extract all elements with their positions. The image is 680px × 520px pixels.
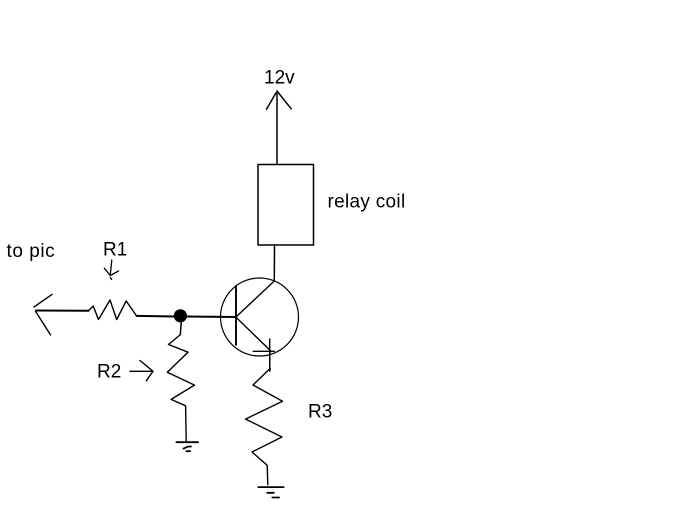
transistor Q1 base bar	[235, 286, 237, 345]
resistor R1 zigzag	[89, 300, 137, 320]
svg-text:R3: R3	[308, 402, 332, 423]
transistor Q1 emitter diagonal	[236, 317, 271, 351]
svg-text:R1: R1	[103, 240, 127, 261]
wire node to base	[187, 316, 237, 319]
transistor Q1 emitter arrow cross	[253, 339, 274, 371]
resistor R3 zigzag	[246, 368, 283, 484]
wire from arrow to R1	[36, 310, 89, 312]
svg-text:R2: R2	[97, 362, 121, 383]
arrow under R1 label	[104, 260, 118, 280]
wire emitter to R3	[269, 351, 271, 371]
svg-text:to pic: to pic	[7, 241, 56, 262]
arrow beside R2 label	[130, 361, 153, 381]
arrow to pic (left arrow)	[34, 294, 52, 335]
ground for R3	[258, 487, 283, 497]
wire R1 to node	[137, 315, 176, 318]
transistor Q1 collector diagonal	[236, 281, 274, 317]
svg-text:relay coil: relay coil	[328, 192, 406, 213]
wire node down to R2	[179, 323, 182, 335]
transistor Q1 circle	[221, 278, 299, 356]
arrow to 12v supply	[267, 91, 292, 164]
resistor R2 zigzag	[167, 335, 194, 441]
relay coil rectangle	[258, 165, 314, 246]
svg-text:12v: 12v	[264, 67, 295, 88]
ground for R2	[176, 442, 198, 451]
node junction dot	[174, 309, 187, 322]
wire collector to relay coil	[273, 245, 275, 281]
